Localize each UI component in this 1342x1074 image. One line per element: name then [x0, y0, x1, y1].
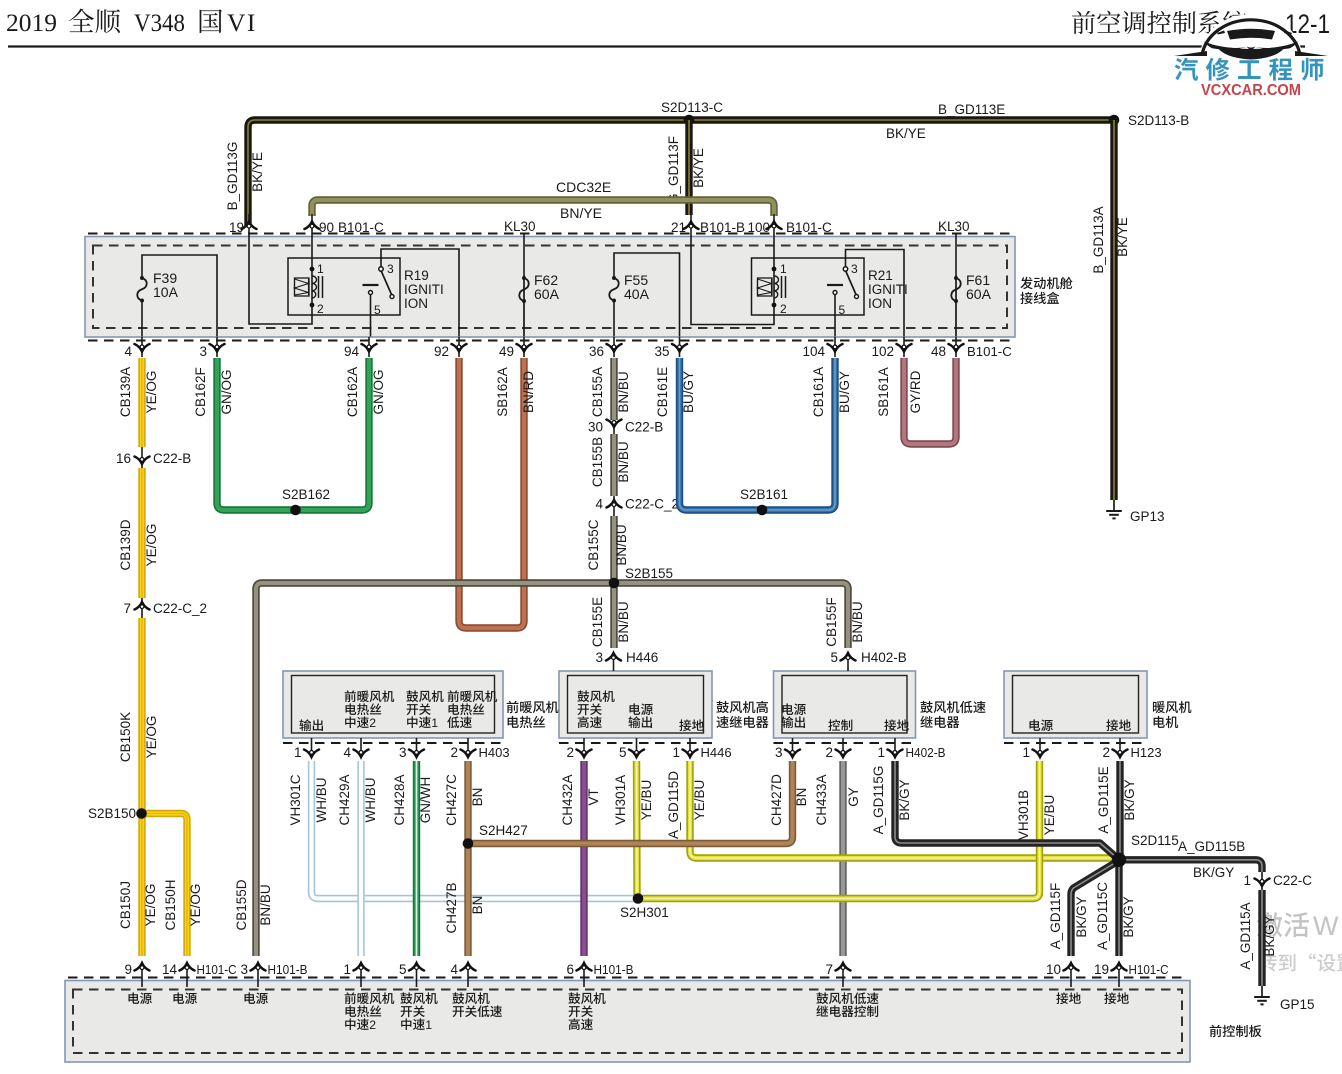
svg-text:A_GD115G: A_GD115G — [871, 766, 886, 835]
relay R21 IGNITION — [691, 248, 774, 325]
svg-text:2: 2 — [1102, 745, 1110, 760]
wire CH427D BN — [468, 761, 793, 844]
svg-text:7: 7 — [123, 601, 131, 616]
wire CB155C BN/BU — [610, 516, 617, 583]
svg-text:S2H301: S2H301 — [620, 905, 669, 920]
pin 10 接地 — [1070, 963, 1072, 987]
svg-text:BN/BU: BN/BU — [616, 371, 631, 412]
svg-text:3: 3 — [775, 745, 783, 760]
wire CB139A YE/OG — [138, 358, 145, 447]
svg-text:S2H427: S2H427 — [479, 823, 528, 838]
svg-text:35: 35 — [654, 344, 669, 359]
node S2B150 — [136, 808, 147, 819]
fuse F61 60A — [955, 275, 957, 337]
wire CB150H YE/OG branch — [142, 814, 187, 957]
pin 6 H101-B 鼓风机开关高速 — [583, 963, 585, 987]
svg-text:CB155F: CB155F — [824, 597, 839, 647]
svg-text:YE/BU: YE/BU — [692, 780, 707, 821]
node S2B161 — [757, 505, 768, 516]
svg-text:YE/BU: YE/BU — [639, 780, 654, 821]
pin 2 (H446) — [583, 738, 585, 758]
pin 2 (H403) — [467, 738, 469, 758]
svg-text:BK/YE: BK/YE — [1115, 217, 1130, 257]
relay R19 IGNITION — [249, 248, 312, 324]
node S2D113-C — [684, 115, 695, 126]
svg-text:G_GD113F: G_GD113F — [666, 136, 681, 204]
node S2H427 — [463, 838, 474, 849]
svg-text:H403: H403 — [479, 745, 510, 760]
ground GP13 — [1113, 500, 1115, 511]
svg-text:S2B162: S2B162 — [282, 487, 330, 502]
svg-text:BN/BU: BN/BU — [616, 441, 631, 482]
svg-text:4: 4 — [450, 962, 458, 977]
svg-text:B101-B: B101-B — [700, 220, 745, 235]
svg-text:S2D113-B: S2D113-B — [1128, 113, 1189, 128]
svg-text:BN/YE: BN/YE — [560, 205, 602, 221]
svg-text:2: 2 — [450, 745, 458, 760]
logo text 汽修工程师 — [1175, 58, 1324, 81]
svg-text:A_GD115D: A_GD115D — [666, 771, 681, 839]
svg-text:CH427D: CH427D — [769, 774, 784, 826]
svg-text:3: 3 — [387, 262, 394, 276]
wire A_GD115E BK/GY — [1116, 761, 1123, 858]
pin 92 (fuse box bottom) — [458, 337, 460, 357]
svg-text:H101-B: H101-B — [268, 962, 308, 977]
svg-text:YE/OG: YE/OG — [188, 884, 203, 927]
svg-text:A_GD115F: A_GD115F — [1048, 883, 1063, 950]
wire B_GD113E BK/YE top bus — [248, 120, 1114, 227]
fuse F39 10A — [142, 255, 217, 337]
pin 1 (H446) — [689, 738, 691, 758]
svg-text:C22-C_2: C22-C_2 — [625, 497, 679, 512]
node S2D113-B — [1109, 115, 1120, 126]
svg-text:1: 1 — [343, 962, 351, 977]
svg-text:3: 3 — [199, 344, 207, 359]
pin 21 B101-B (fuse box top) — [690, 214, 692, 248]
wire VH301A YE/BU — [637, 761, 639, 899]
wire VH301B YE/BU — [638, 761, 1040, 899]
svg-text:5: 5 — [399, 962, 407, 977]
svg-text:VT: VT — [586, 788, 601, 805]
svg-text:C22-C: C22-C — [1273, 873, 1312, 888]
svg-text:CB155A: CB155A — [590, 367, 605, 417]
pin 3 H446 (box top) — [613, 652, 615, 671]
box 前暖风机电热丝 front heater element — [283, 671, 503, 738]
svg-text:CB155B: CB155B — [590, 437, 605, 487]
svg-text:4: 4 — [595, 497, 603, 512]
wire CB139D YE/OG — [138, 468, 145, 598]
pin 94 (fuse box bottom) — [368, 337, 370, 357]
wire SB162A BN/RD — [459, 358, 524, 628]
svg-text:C22-C_2: C22-C_2 — [153, 601, 207, 616]
svg-text:BN: BN — [470, 788, 485, 807]
wire S2B155 horizontal bus BN/BU — [262, 583, 848, 648]
svg-text:KL30: KL30 — [504, 219, 536, 234]
wire CB155D BN/BU — [256, 583, 262, 956]
svg-text:5: 5 — [830, 650, 838, 665]
wire VH301C WH/BU — [312, 761, 639, 899]
svg-text:CB162A: CB162A — [345, 367, 360, 417]
svg-text:C22-B: C22-B — [153, 451, 191, 466]
svg-text:2: 2 — [369, 716, 376, 730]
connector C22-C pin 1 — [1261, 872, 1263, 890]
svg-text:30: 30 — [588, 420, 603, 435]
svg-text:BK/YE: BK/YE — [691, 148, 706, 188]
connector C22-B pin 16 — [141, 447, 143, 468]
svg-text:10: 10 — [1046, 962, 1061, 977]
svg-text:90: 90 — [319, 220, 334, 235]
wire A_GD115C BK/GY — [1115, 860, 1122, 956]
svg-text:1: 1 — [425, 1018, 432, 1032]
wire A_GD115G BK/GY — [895, 761, 1117, 858]
svg-text:YE/BU: YE/BU — [1042, 795, 1057, 836]
pin 1 (H403) — [311, 738, 313, 758]
svg-text:5: 5 — [839, 303, 846, 317]
pin 104 (fuse box bottom) — [834, 337, 836, 357]
node S2H301 — [633, 893, 644, 904]
pin 19 (fuse box top) — [248, 214, 250, 248]
svg-text:3: 3 — [595, 650, 603, 665]
box 鼓风机高速继电器 blower high speed relay — [559, 671, 712, 738]
svg-text:2: 2 — [825, 745, 833, 760]
svg-text:3: 3 — [240, 962, 248, 977]
svg-text:BU/GY: BU/GY — [837, 371, 852, 413]
svg-text:BN: BN — [794, 788, 809, 807]
svg-text:R19: R19 — [404, 268, 429, 283]
svg-text:BK/YE: BK/YE — [886, 126, 926, 141]
svg-text:GY/RD: GY/RD — [908, 370, 923, 413]
svg-text:BN/BU: BN/BU — [616, 601, 631, 642]
wire CB155B BN/BU — [610, 434, 617, 496]
pin 2 (H123) — [1119, 738, 1121, 758]
wire CH432A VT — [580, 761, 587, 956]
svg-text:102: 102 — [871, 344, 894, 359]
svg-text:10A: 10A — [153, 284, 179, 300]
wire G_GD113F BK/YE — [685, 120, 692, 215]
logo car emblem — [1174, 14, 1328, 60]
svg-text:CH432A: CH432A — [560, 774, 575, 825]
svg-text:BK/GY: BK/GY — [1122, 779, 1137, 820]
svg-text:CB161A: CB161A — [811, 367, 826, 417]
svg-text:1: 1 — [877, 745, 885, 760]
pin 102 (fuse box bottom) — [903, 337, 905, 357]
wire CH427B BN — [464, 844, 471, 957]
wire CB162F GN/OG — [217, 358, 295, 510]
svg-text:BK/GY: BK/GY — [1074, 896, 1089, 937]
pin 49 (fuse box bottom) — [523, 337, 525, 357]
svg-text:1: 1 — [294, 745, 302, 760]
svg-text:40A: 40A — [624, 286, 650, 302]
connector C22-B pin 30 — [613, 420, 615, 434]
svg-text:CH427C: CH427C — [444, 774, 459, 826]
svg-text:CB162F: CB162F — [193, 367, 208, 417]
wire A_GD115B BK/GY — [1119, 860, 1262, 872]
header 前空调控制系统 12-1 — [1072, 11, 1247, 35]
wire CDC32E BN/YE — [312, 200, 774, 216]
svg-text:100: 100 — [747, 220, 770, 235]
svg-text:6: 6 — [566, 962, 574, 977]
svg-text:BU/GY: BU/GY — [681, 371, 696, 413]
svg-text:2: 2 — [369, 1018, 376, 1032]
pin 1 (H402-B) — [894, 738, 896, 758]
svg-text:VH301B: VH301B — [1016, 790, 1031, 840]
svg-text:B_GD113G: B_GD113G — [225, 142, 240, 211]
svg-text:A_GD115C: A_GD115C — [1095, 882, 1110, 950]
svg-text:CB139A: CB139A — [118, 367, 133, 417]
svg-text:BK/GY: BK/GY — [1262, 915, 1277, 956]
node S2D115 — [1112, 853, 1126, 867]
svg-text:19: 19 — [229, 220, 244, 235]
connector C22-C_2 pin 7 — [141, 598, 143, 618]
svg-text:48: 48 — [931, 344, 946, 359]
pin 19 H101-C 接地 — [1118, 963, 1120, 987]
svg-text:CB150K: CB150K — [118, 712, 133, 762]
wire A_GD115A BK/GY — [1258, 890, 1265, 986]
wire SB161A GY/RD — [904, 358, 956, 444]
svg-text:VH301A: VH301A — [613, 775, 628, 825]
svg-text:9: 9 — [124, 962, 132, 977]
wire B_GD113A BK/YE to GP13 — [1110, 120, 1117, 500]
svg-text:KL30: KL30 — [938, 219, 970, 234]
svg-text:YE/OG: YE/OG — [143, 884, 158, 927]
svg-text:14: 14 — [162, 962, 178, 977]
svg-text:1: 1 — [780, 262, 787, 276]
wire CB155E BN/BU — [610, 583, 617, 648]
svg-text:S2B155: S2B155 — [625, 566, 673, 581]
pin 1 (H123) — [1039, 738, 1041, 758]
svg-text:CDC32E: CDC32E — [556, 179, 611, 195]
svg-text:CB155C: CB155C — [586, 519, 601, 570]
pin 2 (H402-B) — [842, 738, 844, 758]
pin 3 (H402-B) — [792, 738, 794, 758]
svg-text:H446: H446 — [701, 745, 732, 760]
pin 4 鼓风机开关低速 — [467, 963, 469, 987]
svg-text:YE/OG: YE/OG — [144, 524, 159, 567]
svg-text:49: 49 — [499, 344, 514, 359]
svg-text:36: 36 — [589, 344, 604, 359]
svg-text:A_GD115E: A_GD115E — [1096, 766, 1111, 833]
svg-text:VI: VI — [227, 8, 257, 37]
svg-text:ION: ION — [868, 296, 892, 311]
svg-text:BN/BU: BN/BU — [614, 524, 629, 565]
svg-text:BK/GY: BK/GY — [1193, 865, 1234, 880]
svg-text:S2B150: S2B150 — [88, 806, 136, 821]
svg-text:3: 3 — [399, 745, 407, 760]
svg-text:H446: H446 — [626, 650, 658, 665]
svg-text:CB150H: CB150H — [163, 879, 178, 930]
svg-text:B101-C: B101-C — [967, 344, 1012, 359]
svg-text:B101-C: B101-C — [338, 220, 384, 235]
svg-text:GN/WH: GN/WH — [418, 777, 433, 824]
wire A_GD115F BK/GY — [1071, 862, 1117, 956]
svg-text:GP15: GP15 — [1280, 997, 1315, 1012]
svg-text:1: 1 — [1243, 873, 1251, 888]
fuse F55 40A — [614, 253, 680, 337]
wire CB150J YE/OG — [138, 814, 145, 957]
pin 3 (fuse box bottom) — [216, 337, 218, 357]
svg-text:IGNITI: IGNITI — [868, 282, 908, 297]
wire CB150K YE/OG — [138, 618, 145, 813]
pin 48 (fuse box bottom) — [955, 337, 957, 357]
svg-text:S2B161: S2B161 — [740, 487, 788, 502]
svg-text:A_GD115B: A_GD115B — [1178, 839, 1245, 854]
svg-text:GY: GY — [846, 787, 861, 807]
svg-text:B101-C: B101-C — [786, 220, 832, 235]
svg-text:4: 4 — [343, 745, 351, 760]
svg-text:H101-B: H101-B — [594, 962, 634, 977]
box 鼓风机低速继电器 blower low speed relay — [774, 671, 916, 738]
svg-text:IGNITI: IGNITI — [404, 282, 444, 297]
pin 3 H101-B 电源 — [257, 963, 259, 987]
svg-text:2019: 2019 — [6, 8, 57, 37]
svg-text:B_GD113E: B_GD113E — [938, 102, 1005, 117]
svg-text:H101-C: H101-C — [197, 962, 237, 977]
svg-text:ION: ION — [404, 296, 428, 311]
svg-text:92: 92 — [434, 344, 449, 359]
svg-text:VCXCAR.COM: VCXCAR.COM — [1201, 82, 1301, 99]
svg-text:1: 1 — [672, 745, 680, 760]
pin 5 H402-B (box top) — [847, 652, 849, 671]
svg-text:94: 94 — [344, 344, 360, 359]
wire CH428A GN/WH — [413, 761, 420, 956]
pin 1 前暖风机电热丝中速2 — [360, 963, 362, 987]
svg-text:4: 4 — [124, 344, 132, 359]
svg-text:21: 21 — [671, 220, 686, 235]
svg-text:5: 5 — [374, 303, 381, 317]
svg-text:WH/BU: WH/BU — [314, 778, 329, 823]
svg-text:7: 7 — [825, 962, 833, 977]
svg-text:CB161E: CB161E — [655, 367, 670, 417]
svg-text:BK/GY: BK/GY — [1121, 896, 1136, 937]
pin 5 (H446) — [636, 738, 638, 758]
connector C22-C_2 pin 4 — [613, 496, 615, 516]
pin 5 鼓风机开关中速1 — [416, 963, 418, 987]
pin 7 鼓风机低速继电器控制 — [842, 963, 844, 987]
svg-text:CB155D: CB155D — [234, 879, 249, 930]
wire CH433A GY — [839, 761, 846, 956]
svg-text:CH433A: CH433A — [814, 774, 829, 825]
svg-text:CH429A: CH429A — [337, 774, 352, 825]
wire CB155A BN/BU — [610, 358, 617, 420]
svg-text:2: 2 — [780, 302, 787, 316]
svg-text:BN/RD: BN/RD — [521, 371, 536, 413]
svg-text:H101-C: H101-C — [1129, 962, 1169, 977]
box 发动机舱接线盒 engine compartment junction box — [85, 237, 1015, 338]
svg-text:60A: 60A — [966, 286, 992, 302]
svg-text:YE/OG: YE/OG — [144, 716, 159, 759]
ground GP15 — [1261, 986, 1263, 997]
svg-text:S2D113-C: S2D113-C — [661, 100, 723, 115]
pin 4 (fuse box bottom) — [141, 337, 143, 357]
svg-text:R21: R21 — [868, 268, 893, 283]
watermark 激活 Windows — [1257, 912, 1309, 937]
svg-text:2: 2 — [566, 745, 574, 760]
pin 100 B101-C (fuse box top) — [773, 214, 775, 270]
pin 36 (fuse box bottom) — [613, 337, 615, 357]
header rule — [8, 45, 1305, 47]
fuse F62 60A — [523, 275, 525, 337]
pin 14 H101-C 电源 — [186, 963, 188, 987]
svg-text:60A: 60A — [534, 286, 560, 302]
svg-text:CH427B: CH427B — [444, 882, 459, 933]
svg-text:16: 16 — [116, 451, 131, 466]
svg-text:V348: V348 — [134, 8, 185, 37]
svg-text:BN/BU: BN/BU — [850, 601, 865, 642]
svg-text:B_GD113A: B_GD113A — [1091, 206, 1106, 273]
wire A_GD115D YE/BU — [690, 761, 1119, 860]
pin 90 B101-C (fuse box top) — [311, 214, 313, 270]
svg-text:CB155E: CB155E — [590, 597, 605, 647]
svg-text:3: 3 — [851, 262, 858, 276]
svg-text:BK/YE: BK/YE — [250, 152, 265, 192]
svg-text:CB139D: CB139D — [118, 519, 133, 570]
svg-text:CH428A: CH428A — [392, 774, 407, 825]
svg-text:WH/BU: WH/BU — [363, 778, 378, 823]
svg-text:BK/GY: BK/GY — [897, 779, 912, 820]
wire CB161A BU/GY — [762, 358, 835, 510]
svg-text:GP13: GP13 — [1130, 509, 1165, 524]
svg-text:1: 1 — [431, 716, 438, 730]
pin 9 电源 — [141, 963, 143, 987]
svg-text:SB161A: SB161A — [876, 367, 891, 417]
svg-text:104: 104 — [802, 344, 825, 359]
svg-text:CB150J: CB150J — [118, 881, 133, 929]
svg-text:5: 5 — [619, 745, 627, 760]
svg-text:GN/OG: GN/OG — [371, 369, 386, 414]
node S2B162 — [290, 505, 301, 516]
box 暖风机电机 heater motor — [1004, 671, 1147, 738]
pin 35 (fuse box bottom) — [679, 337, 681, 357]
svg-text:H402-B: H402-B — [906, 745, 946, 760]
svg-text:W: W — [1313, 911, 1339, 941]
svg-text:GN/OG: GN/OG — [219, 369, 234, 414]
pin 3 (H403) — [416, 738, 418, 758]
wire CB162A GN/OG — [295, 358, 369, 510]
svg-text:19: 19 — [1094, 962, 1109, 977]
wire CH429A WH/BU — [357, 761, 364, 956]
svg-text:S2D115: S2D115 — [1131, 833, 1179, 848]
pin 4 (H403) — [360, 738, 362, 758]
svg-text:1: 1 — [317, 262, 324, 276]
svg-text:A_GD115A: A_GD115A — [1238, 902, 1253, 969]
svg-text:YE/OG: YE/OG — [144, 371, 159, 414]
box 前控制板 front control panel — [65, 981, 1190, 1063]
wire CH427C BN — [464, 761, 471, 844]
svg-text:2: 2 — [317, 302, 324, 316]
svg-text:BN/BU: BN/BU — [258, 884, 273, 925]
svg-text:BN: BN — [470, 896, 485, 915]
svg-text:C22-B: C22-B — [625, 420, 663, 435]
svg-text:SB162A: SB162A — [495, 367, 510, 417]
svg-text:VH301C: VH301C — [288, 774, 303, 825]
svg-text:H123: H123 — [1131, 745, 1162, 760]
svg-text:H402-B: H402-B — [861, 650, 907, 665]
wire CB161E BU/GY — [680, 358, 763, 510]
svg-text:1: 1 — [1022, 745, 1030, 760]
